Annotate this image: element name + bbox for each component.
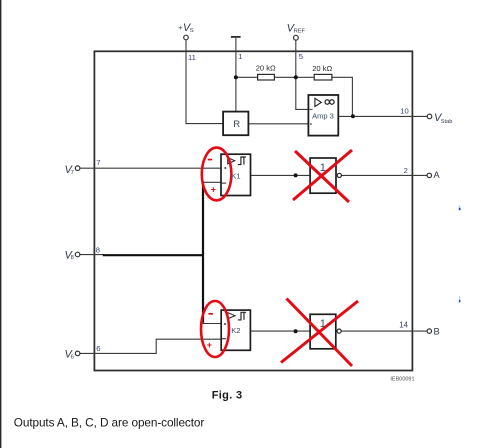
svg-text:20 kΩ: 20 kΩ [312,64,332,73]
svg-text:10: 10 [400,107,408,116]
svg-text:1: 1 [320,162,326,174]
svg-text:K2: K2 [231,326,240,335]
svg-text:11: 11 [188,53,196,62]
svg-text:1: 1 [320,318,326,330]
svg-text:+: + [207,340,212,350]
svg-text:Fig. 3: Fig. 3 [212,390,243,402]
svg-text:Amp 3: Amp 3 [312,111,334,120]
svg-text:6: 6 [71,354,74,360]
svg-text:8: 8 [71,255,74,261]
svg-text:Stab: Stab [441,119,453,125]
svg-text:A: A [433,169,440,180]
svg-text:IEB00091: IEB00091 [390,376,414,382]
svg-text:K1: K1 [231,172,240,181]
svg-text:14: 14 [399,321,408,330]
svg-text:+: + [211,184,216,194]
svg-text:R: R [233,119,240,130]
svg-text:S: S [190,28,194,34]
svg-text:7: 7 [96,158,100,167]
svg-text:7: 7 [71,170,74,176]
svg-text:20 kΩ: 20 kΩ [256,64,276,73]
svg-text:5: 5 [299,52,303,61]
svg-text:8: 8 [96,246,100,255]
svg-text:6: 6 [96,344,100,353]
svg-text:B: B [434,326,440,337]
svg-text:2: 2 [404,166,408,175]
svg-text:Outputs A, B, C, D are open-co: Outputs A, B, C, D are open-collector [14,415,205,429]
svg-text:REF: REF [294,28,306,34]
svg-text:1: 1 [238,52,242,61]
